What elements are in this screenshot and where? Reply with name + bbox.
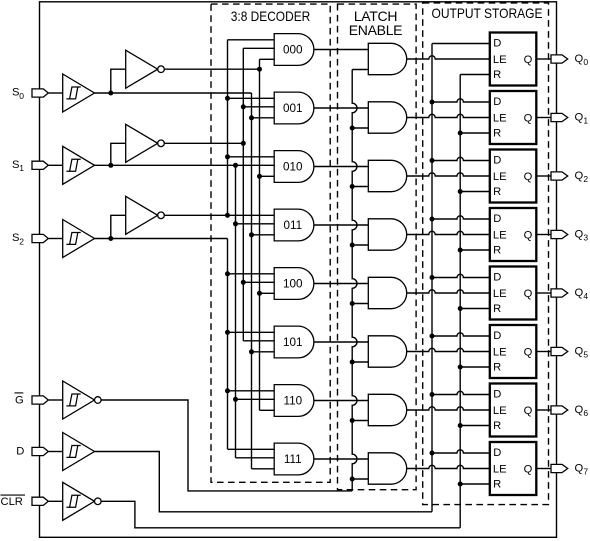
wire enable gate 7 output to latch LE xyxy=(407,465,490,468)
junction rail S0 gate 001 xyxy=(249,115,254,120)
wire S2 true to rail corner xyxy=(95,238,228,240)
svg-text:R: R xyxy=(493,420,501,432)
svg-text:0: 0 xyxy=(19,91,24,101)
wire D rail to latch 5 D input xyxy=(432,333,490,336)
wire latch 6 Q output xyxy=(536,409,551,411)
svg-text:3:8 DECODER: 3:8 DECODER xyxy=(231,8,311,24)
junction R rail row 4 xyxy=(458,306,463,311)
svg-text:Q: Q xyxy=(575,404,584,416)
junction S0 inverted on rail xyxy=(257,67,262,72)
wire R rail to latch 6 R input xyxy=(460,425,490,427)
wire S1 inverted to rail xyxy=(164,142,243,144)
wire decoder 100 output to enable gate 4 xyxy=(314,283,368,285)
junction rail S2n gate 010 xyxy=(225,154,230,159)
wire buffer S1 to inverter xyxy=(111,143,126,165)
wire enable rail to gate 0 input xyxy=(352,69,368,71)
junction rail S2 gate 100 xyxy=(225,271,230,276)
junction R rail row 2 xyxy=(458,189,463,194)
junction R rail row 5 xyxy=(458,365,463,370)
svg-text:LE: LE xyxy=(493,230,507,242)
svg-text:R: R xyxy=(493,479,501,491)
svg-text:Q: Q xyxy=(575,287,584,299)
wire D rail to latch 3 D input xyxy=(432,216,490,219)
wire D rail to latch 1 D input xyxy=(432,99,490,102)
schmitt buffer D xyxy=(63,433,95,471)
wire enable rail to gate 7 input xyxy=(352,478,368,480)
wire CLR buffer to R rail xyxy=(101,501,460,528)
input pin D xyxy=(32,447,48,455)
label S0 xyxy=(12,87,24,101)
svg-text:Q: Q xyxy=(575,229,584,241)
junction enable rail row 1 xyxy=(350,126,355,131)
svg-text:Q: Q xyxy=(524,288,533,300)
junction D rail row 5 xyxy=(430,334,435,339)
inverter S1 xyxy=(126,124,165,162)
schmitt buffer G xyxy=(63,381,101,419)
wire enable rail to gate 6 input xyxy=(352,420,368,422)
wires decoder gate 000 inputs xyxy=(228,40,275,60)
svg-text:Q: Q xyxy=(524,54,533,66)
svg-text:Q: Q xyxy=(575,346,584,358)
wire enable gate 0 output to latch LE xyxy=(407,56,490,59)
dashed box 3:8 DECODER xyxy=(211,4,330,482)
svg-text:R: R xyxy=(493,362,501,374)
label S1 xyxy=(12,159,24,173)
rail S2 true (x=227.5 lower) xyxy=(227,239,229,450)
wire decoder 001 output to enable gate 1 xyxy=(314,107,368,109)
AND gate latch-enable row 3 xyxy=(368,219,406,250)
svg-text:R: R xyxy=(493,128,501,140)
output pin Q0 xyxy=(551,55,568,63)
wire G pin to buffer xyxy=(48,399,62,401)
output pin Q4 xyxy=(551,289,568,297)
svg-text:D: D xyxy=(493,155,501,167)
input pin S0 xyxy=(32,89,48,97)
svg-text:2: 2 xyxy=(583,174,588,184)
svg-text:0: 0 xyxy=(583,57,588,67)
AND gate 111 (decoder) xyxy=(274,443,314,475)
wire D buffer to D rail xyxy=(95,452,433,512)
svg-text:7: 7 xyxy=(583,467,588,477)
label Q4 xyxy=(575,287,589,301)
junction enable rail row 7 xyxy=(350,477,355,482)
junction D rail row 2 xyxy=(430,158,435,163)
inverter S0 xyxy=(126,50,165,88)
junction enable rail row 4 xyxy=(350,301,355,306)
svg-text:110: 110 xyxy=(283,395,302,408)
wire decoder 110 output to enable gate 6 xyxy=(314,400,368,402)
junction S1 inverted on rail xyxy=(241,141,246,146)
junction D rail row 7 xyxy=(430,451,435,456)
rail S0 true (x=251.5) xyxy=(251,93,253,469)
rail latch-enable (x=351.3 from G) xyxy=(352,70,357,491)
svg-text:5: 5 xyxy=(583,350,588,360)
svg-text:D: D xyxy=(493,96,501,108)
wire D rail to latch 4 D input xyxy=(432,274,490,277)
junction enable rail row 5 xyxy=(350,360,355,365)
label Q3 xyxy=(575,229,589,243)
schmitt buffer S2 xyxy=(63,220,95,258)
svg-text:3: 3 xyxy=(583,233,588,243)
junction rail S2 gate 110 xyxy=(225,388,230,393)
output pin Q6 xyxy=(551,406,568,414)
wire S0 inverted to rail xyxy=(164,68,259,70)
wire D pin to buffer xyxy=(48,451,62,453)
wire enable gate 3 output to latch LE xyxy=(407,231,490,234)
svg-text:R: R xyxy=(493,69,501,81)
svg-text:Q: Q xyxy=(575,112,584,124)
junction rail S2 gate 101 xyxy=(225,330,230,335)
svg-text:001: 001 xyxy=(283,102,303,115)
svg-text:D: D xyxy=(493,389,501,401)
wire R rail to latch 0 R input xyxy=(460,74,490,76)
junction S0 buffer output xyxy=(108,91,113,96)
junction R rail row 7 xyxy=(458,482,463,487)
label Q5 xyxy=(575,346,589,360)
rail S1 inverted (x=243.3) xyxy=(242,48,244,341)
wire decoder 010 output to enable gate 2 xyxy=(314,166,368,168)
output pin Q7 xyxy=(551,464,568,472)
wires decoder gate 110 inputs xyxy=(228,391,275,411)
label 3:8 DECODER xyxy=(231,8,311,24)
wire enable gate 5 output to latch LE xyxy=(407,348,490,351)
svg-text:LE: LE xyxy=(493,464,507,476)
wire R rail to latch 3 R input xyxy=(460,249,490,251)
svg-text:2: 2 xyxy=(19,236,24,246)
wire latch 7 Q output xyxy=(536,468,551,470)
junction R rail row 6 xyxy=(458,423,463,428)
wire enable rail to gate 1 input xyxy=(352,127,368,129)
wire D rail to latch 2 D input xyxy=(432,157,490,160)
wire R rail to latch 2 R input xyxy=(460,191,490,193)
svg-text:LE: LE xyxy=(493,288,507,300)
svg-text:100: 100 xyxy=(283,278,303,291)
rail S0 inverted (x=259.5) xyxy=(259,59,261,410)
latch U0 (D/LE/R/Q) row 0 xyxy=(490,33,537,86)
latch U1 (D/LE/R/Q) row 1 xyxy=(490,91,537,144)
wire latch 3 Q output xyxy=(536,234,551,236)
input pin S1 xyxy=(32,161,48,169)
AND gate 001 (decoder) xyxy=(274,92,314,124)
junction rail S1n gate 100 xyxy=(241,280,246,285)
svg-text:Q: Q xyxy=(524,171,533,183)
AND gate 101 (decoder) xyxy=(274,326,314,358)
junction D rail row 6 xyxy=(430,392,435,397)
rail R reset (x=460.2) xyxy=(459,75,461,528)
wire enable rail to gate 4 input xyxy=(352,303,368,305)
wire S0 true to rail xyxy=(95,92,252,94)
wire R rail to latch 4 R input xyxy=(460,308,490,310)
svg-text:LE: LE xyxy=(493,347,507,359)
wire G-bar buffer to enable rail xyxy=(101,400,352,491)
junction S2 inverted on rail xyxy=(225,213,230,218)
svg-text:101: 101 xyxy=(283,336,303,349)
junction rail S1n gate 001 xyxy=(241,104,246,109)
wire enable gate 1 output to latch LE xyxy=(407,114,490,117)
wire latch 1 Q output xyxy=(536,117,551,119)
svg-text:D: D xyxy=(493,213,501,225)
schmitt buffer CLR xyxy=(63,482,101,520)
wire CLR pin to buffer xyxy=(48,500,62,502)
svg-text:LE: LE xyxy=(493,405,507,417)
wire decoder 000 output to enable gate 0 xyxy=(314,49,368,51)
svg-text:Q: Q xyxy=(575,170,584,182)
svg-text:ENABLE: ENABLE xyxy=(349,22,402,38)
label Q1 xyxy=(575,112,589,126)
svg-text:111: 111 xyxy=(284,453,302,466)
svg-text:Q: Q xyxy=(524,347,533,359)
svg-text:6: 6 xyxy=(583,408,588,418)
wire enable gate 2 output to latch LE xyxy=(407,173,490,176)
svg-text:Q: Q xyxy=(575,463,584,475)
junction rail S2n gate 001 xyxy=(225,96,230,101)
wire S2 inverted to gate 011 input xyxy=(164,214,274,216)
wire buffer S2 to inverter xyxy=(111,215,126,238)
svg-text:010: 010 xyxy=(283,161,303,174)
label Q0 xyxy=(575,53,589,67)
rail S1 true (x=235.5) xyxy=(235,165,237,458)
wire S2 pin to buffer xyxy=(48,238,62,240)
svg-text:000: 000 xyxy=(283,44,303,57)
junction S2 buffer output xyxy=(108,236,113,241)
junction enable rail row 6 xyxy=(350,418,355,423)
wire S0 pin to buffer xyxy=(48,92,62,94)
junction enable rail row 3 xyxy=(350,243,355,248)
wire latch 4 Q output xyxy=(536,292,551,294)
schmitt buffer S0 xyxy=(63,74,95,112)
label D xyxy=(16,446,24,458)
svg-text:G: G xyxy=(15,395,24,407)
wires decoder gate 011 inputs xyxy=(236,224,275,235)
wire enable gate 4 output to latch LE xyxy=(407,290,490,293)
AND gate 110 (decoder) xyxy=(274,385,314,417)
svg-text:Q: Q xyxy=(524,230,533,242)
junction R rail row 3 xyxy=(458,248,463,253)
label OUTPUT STORAGE xyxy=(432,5,543,21)
wires decoder gate 101 inputs xyxy=(228,332,275,352)
wire R rail to latch 7 R input xyxy=(460,483,490,485)
label LATCH ENABLE xyxy=(349,8,402,38)
AND gate latch-enable row 1 xyxy=(368,102,406,133)
AND gate latch-enable row 2 xyxy=(368,160,406,191)
junction rail S0 gate 011 xyxy=(249,232,254,237)
schmitt buffer S1 xyxy=(63,146,95,184)
svg-text:R: R xyxy=(493,186,501,198)
AND gate latch-enable row 5 xyxy=(368,336,406,367)
junction R rail row 1 xyxy=(458,131,463,136)
svg-text:D: D xyxy=(16,446,24,458)
wire S1 true to gate 010 input xyxy=(95,164,275,166)
wire latch 2 Q output xyxy=(536,175,551,177)
junction rail S0n gate 100 xyxy=(257,291,262,296)
svg-text:D: D xyxy=(493,38,501,50)
wires decoder gate 010 inputs xyxy=(228,157,275,177)
output pin Q3 xyxy=(551,230,568,238)
svg-text:LE: LE xyxy=(493,171,507,183)
junction S1 true on rail xyxy=(233,163,238,168)
rail D data (x=432) xyxy=(431,44,433,512)
label CLR xyxy=(1,495,26,508)
label Q7 xyxy=(575,463,589,477)
wire D rail to latch 0 D input xyxy=(432,43,490,45)
svg-text:LE: LE xyxy=(493,54,507,66)
wire enable gate 6 output to latch LE xyxy=(407,407,490,410)
svg-text:Q: Q xyxy=(575,53,584,65)
svg-text:D: D xyxy=(493,272,501,284)
svg-text:D: D xyxy=(493,330,501,342)
label Q6 xyxy=(575,404,589,418)
junction D rail row 3 xyxy=(430,217,435,222)
junction enable rail row 2 xyxy=(350,184,355,189)
svg-text:Q: Q xyxy=(524,464,533,476)
dashed box LATCH ENABLE xyxy=(338,4,417,490)
dashed box OUTPUT STORAGE xyxy=(423,3,549,505)
svg-text:R: R xyxy=(493,245,501,257)
wire S1 pin to buffer xyxy=(48,164,62,166)
wire enable rail to gate 2 input xyxy=(352,186,368,188)
wires decoder gate 100 inputs xyxy=(228,274,275,294)
wire R rail to latch 1 R input xyxy=(460,132,490,134)
latch U4 (D/LE/R/Q) row 4 xyxy=(490,267,537,320)
svg-text:LE: LE xyxy=(493,113,507,125)
svg-text:Q: Q xyxy=(524,405,533,417)
input pin CLR xyxy=(32,497,48,505)
rail S2 inverted (x=227.5 upper) xyxy=(227,40,229,216)
AND gate 000 (decoder) xyxy=(274,34,314,66)
junction rail S1 gate 011 xyxy=(233,221,238,226)
AND gate 011 (decoder) xyxy=(274,209,314,241)
input pin G xyxy=(32,396,48,404)
AND gate 100 (decoder) xyxy=(274,268,314,300)
latch U3 (D/LE/R/Q) row 3 xyxy=(490,208,537,261)
junction rail S0 gate 101 xyxy=(249,349,254,354)
label S2 xyxy=(12,232,24,246)
svg-text:1: 1 xyxy=(19,163,24,173)
AND gate latch-enable row 7 xyxy=(368,453,406,484)
wire D rail to latch 7 D input xyxy=(432,450,490,453)
wire decoder 011 output to enable gate 3 xyxy=(314,224,368,226)
svg-text:011: 011 xyxy=(283,219,302,232)
svg-text:CLR: CLR xyxy=(1,496,23,508)
svg-text:Q: Q xyxy=(524,113,533,125)
junction rail S1 gate 110 xyxy=(233,397,238,402)
wire enable rail to gate 5 input xyxy=(352,361,368,363)
junction D rail row 4 xyxy=(430,275,435,280)
latch U5 (D/LE/R/Q) row 5 xyxy=(490,325,537,378)
label G xyxy=(15,393,24,407)
input pin S2 xyxy=(32,234,48,242)
junction S1 buffer output xyxy=(108,163,113,168)
wires decoder gate 111 inputs xyxy=(228,449,275,469)
junction rail S0n gate 010 xyxy=(257,174,262,179)
inverter S2 xyxy=(126,196,165,234)
latch U2 (D/LE/R/Q) row 2 xyxy=(490,150,537,203)
svg-text:4: 4 xyxy=(583,291,588,301)
wire decoder 111 output to enable gate 7 xyxy=(314,458,368,460)
latch U7 (D/LE/R/Q) row 7 xyxy=(490,442,537,495)
AND gate latch-enable row 4 xyxy=(368,277,406,308)
wire R rail to latch 5 R input xyxy=(460,366,490,368)
wire decoder 101 output to enable gate 5 xyxy=(314,341,368,343)
wire enable rail to gate 3 input xyxy=(352,244,368,246)
latch U6 (D/LE/R/Q) row 6 xyxy=(490,384,537,437)
label Q2 xyxy=(575,170,589,184)
svg-text:D: D xyxy=(493,447,501,459)
output pin Q5 xyxy=(551,347,568,355)
junction D rail row 1 xyxy=(430,100,435,105)
wire latch 5 Q output xyxy=(536,351,551,353)
wire buffer S0 to inverter xyxy=(111,69,126,93)
AND gate latch-enable row 6 xyxy=(368,394,406,425)
svg-text:1: 1 xyxy=(583,116,588,126)
svg-text:R: R xyxy=(493,303,501,315)
wire latch 0 Q output xyxy=(536,58,551,60)
AND gate 010 (decoder) xyxy=(274,151,314,183)
output pin Q1 xyxy=(551,113,568,121)
output pin Q2 xyxy=(551,172,568,180)
AND gate latch-enable row 0 xyxy=(368,43,406,74)
wire D rail to latch 6 D input xyxy=(432,391,490,394)
svg-text:OUTPUT STORAGE: OUTPUT STORAGE xyxy=(432,5,543,21)
wires decoder gate 001 inputs xyxy=(228,98,275,118)
